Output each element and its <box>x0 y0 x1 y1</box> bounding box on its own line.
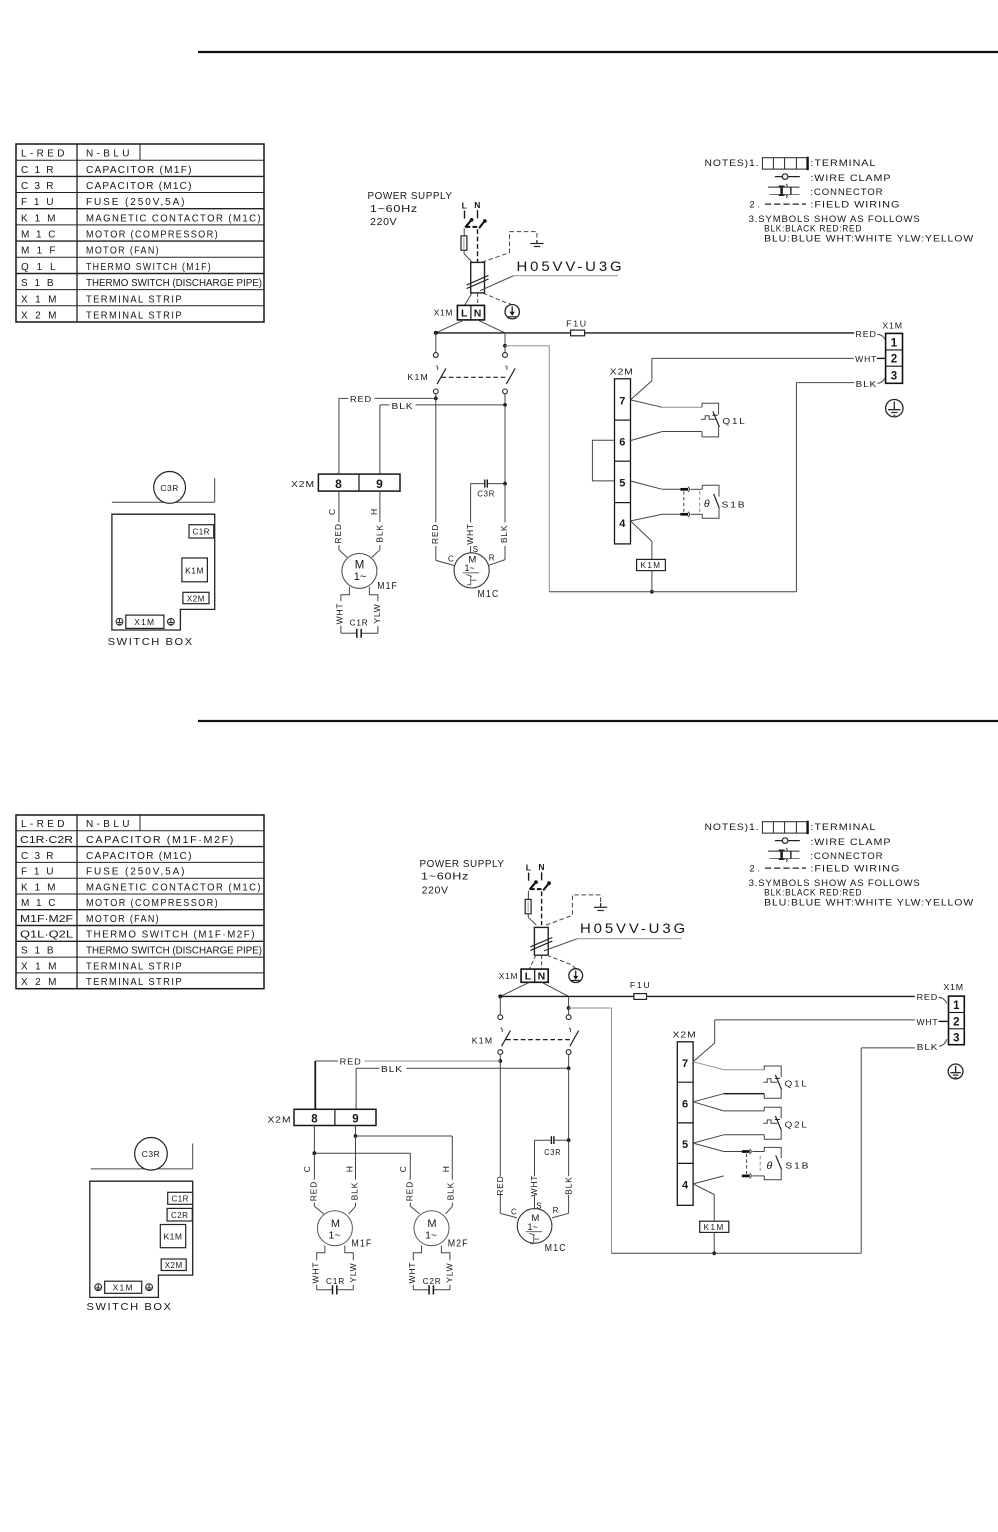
svg-text:8: 8 <box>311 1114 318 1126</box>
switch box outline <box>90 1181 193 1297</box>
svg-text:C3R: C3R <box>21 851 55 862</box>
motor M2F <box>414 1211 469 1250</box>
wire coil to rail <box>712 1232 716 1255</box>
svg-text:1~: 1~ <box>329 1230 341 1242</box>
svg-text:220V: 220V <box>370 216 397 228</box>
svg-text:N: N <box>474 200 480 210</box>
svg-text:BLU:BLUE WHT:WHITE YLW:YELLOW: BLU:BLUE WHT:WHITE YLW:YELLOW <box>764 233 974 243</box>
svg-text:K1M: K1M <box>21 882 57 893</box>
node BLK tap <box>567 1066 571 1070</box>
svg-text:BLK: BLK <box>381 1064 403 1074</box>
wire clamp symbol <box>775 838 800 844</box>
protective earth at X1M <box>886 400 903 417</box>
svg-text:RED: RED <box>495 1175 505 1195</box>
terminal symbol <box>762 821 807 834</box>
svg-text:7: 7 <box>619 396 625 408</box>
terminal X2M unit <box>161 1259 186 1271</box>
wire RED to X2M-8 <box>315 1057 500 1110</box>
wire clamp to L terminal <box>529 955 535 969</box>
svg-text:N-BLU: N-BLU <box>86 149 131 160</box>
svg-text:1~: 1~ <box>527 1222 537 1232</box>
svg-text:M1C: M1C <box>545 1243 567 1254</box>
svg-text:BLK: BLK <box>499 525 509 543</box>
ground lug left <box>116 618 123 625</box>
svg-text:FUSE (250V,5A): FUSE (250V,5A) <box>86 867 186 878</box>
power supply section (bottom) <box>420 858 689 997</box>
svg-text:L: L <box>462 200 467 210</box>
legend table (bottom) <box>16 815 264 989</box>
capacitor C1R unit <box>168 1192 193 1204</box>
svg-text:5: 5 <box>682 1139 688 1151</box>
terminal X2M unit <box>183 592 209 603</box>
svg-text:5: 5 <box>619 477 625 489</box>
capacitor C2R <box>423 1276 442 1295</box>
svg-text:6: 6 <box>619 436 625 448</box>
breaker link dashes <box>530 888 544 890</box>
wire BLK riser to X1M-3 <box>861 1048 915 1253</box>
svg-text:WHT: WHT <box>465 523 475 545</box>
svg-text:POWER SUPPLY: POWER SUPPLY <box>368 190 453 202</box>
svg-text:F1U: F1U <box>566 318 588 328</box>
capacitor C3R unit <box>154 472 186 504</box>
svg-text:2.: 2. <box>750 200 761 210</box>
connector on S1B bottom lead <box>680 512 702 517</box>
wire clamp symbol <box>775 174 800 180</box>
svg-text::FIELD WIRING: :FIELD WIRING <box>810 864 900 874</box>
svg-text::CONNECTOR: :CONNECTOR <box>810 851 883 861</box>
svg-text:POWER SUPPLY: POWER SUPPLY <box>420 858 505 870</box>
terminal strip X1M L N <box>457 305 484 320</box>
svg-text:Q1L: Q1L <box>21 262 57 273</box>
wire N field dash <box>541 872 543 880</box>
wire clamp to PE dashed <box>547 955 576 968</box>
wire BLK drop to M1C R <box>552 1068 570 1218</box>
svg-text:X2M: X2M <box>165 1261 183 1270</box>
svg-text:RED: RED <box>333 523 343 543</box>
svg-text:C2R: C2R <box>423 1276 442 1286</box>
wire N dashed to clamp <box>541 891 543 925</box>
wire L to fuse <box>463 228 465 236</box>
svg-text:N: N <box>474 308 482 320</box>
legend table (top) <box>16 144 264 322</box>
wire X2M-5 to S1B <box>693 1143 742 1151</box>
wire M1F to C1R left <box>317 1246 332 1290</box>
svg-text:C: C <box>398 1166 408 1172</box>
earth symbol <box>594 903 607 910</box>
terminal strip X2M 8 9 <box>291 474 400 491</box>
svg-text:2.: 2. <box>750 864 761 874</box>
terminal X1M unit <box>126 615 164 628</box>
fuse on L lead <box>525 899 531 913</box>
svg-text:X1M: X1M <box>21 961 58 972</box>
svg-text:F1U: F1U <box>21 197 55 208</box>
notes legend (bottom) <box>705 821 975 908</box>
node RED tap <box>434 397 438 401</box>
svg-text::TERMINAL: :TERMINAL <box>810 822 876 832</box>
svg-text:K1M: K1M <box>21 213 57 224</box>
svg-text:C3R: C3R <box>544 1148 561 1157</box>
contactor K1M unit <box>160 1225 185 1248</box>
wire H BLK to M1F <box>372 491 380 557</box>
svg-text:TERMINAL STRIP: TERMINAL STRIP <box>86 311 183 322</box>
hook RED to X1M-1 <box>939 997 947 1003</box>
svg-text:RED: RED <box>917 992 939 1002</box>
svg-text:R: R <box>553 1206 559 1215</box>
protective earth circle <box>505 305 519 319</box>
svg-text:9: 9 <box>376 477 383 491</box>
wire L terminal to bus <box>436 320 464 333</box>
power supply label <box>420 858 505 897</box>
svg-text:6: 6 <box>682 1098 688 1110</box>
svg-text:H: H <box>441 1166 451 1172</box>
wire WHT to X1M-2 <box>939 1020 949 1022</box>
wire BLK to X2M-9 <box>356 1064 568 1109</box>
terminal symbol <box>762 157 807 170</box>
thermo switch S1B <box>747 1147 811 1179</box>
svg-text:THERMO SWITCH (DISCHARGE PIPE): THERMO SWITCH (DISCHARGE PIPE) <box>86 278 262 289</box>
svg-text:YLW: YLW <box>445 1262 455 1282</box>
wire X2M-7 to Q1L <box>631 400 703 408</box>
svg-text:MOTOR (FAN): MOTOR (FAN) <box>86 914 160 925</box>
main L bus wire <box>498 994 915 998</box>
svg-text:MAGNETIC CONTACTOR (M1C): MAGNETIC CONTACTOR (M1C) <box>86 213 262 224</box>
svg-text:3.SYMBOLS SHOW AS FOLLOWS: 3.SYMBOLS SHOW AS FOLLOWS <box>749 214 921 224</box>
wire N dashed to clamp <box>477 229 479 262</box>
svg-text:7: 7 <box>682 1058 688 1070</box>
wire L field dash <box>528 873 530 881</box>
svg-text:X1M: X1M <box>434 308 454 318</box>
wire X2M-6 to Q1L <box>693 1094 764 1102</box>
wire clamp H05VV-U3G <box>530 927 552 955</box>
svg-text:CAPACITOR (M1F·M2F): CAPACITOR (M1F·M2F) <box>86 835 235 846</box>
connector symbol <box>768 848 800 862</box>
contactor K1M pole L <box>498 996 511 1061</box>
svg-text:2: 2 <box>891 354 897 366</box>
hook BLK to X1M-3 <box>939 1039 947 1046</box>
thermo switch Q1L <box>701 403 747 437</box>
wire M2F to C2R left <box>413 1246 428 1290</box>
capacitor C1R <box>350 618 369 638</box>
breaker switch L <box>530 880 538 889</box>
svg-text:M1C: M1C <box>478 589 500 600</box>
capacitor C3R <box>535 1136 569 1157</box>
terminal strip X1M L N <box>521 969 548 983</box>
svg-text:YLW: YLW <box>372 603 382 623</box>
svg-text:FUSE (250V,5A): FUSE (250V,5A) <box>86 197 186 208</box>
labels M2F column <box>398 1166 455 1201</box>
svg-text:1~: 1~ <box>425 1230 437 1242</box>
svg-text:SWITCH BOX: SWITCH BOX <box>108 636 194 648</box>
jumper bracket 6-5 <box>592 440 614 481</box>
svg-text:THERMO SWITCH (M1F·M2F): THERMO SWITCH (M1F·M2F) <box>86 930 256 941</box>
svg-text:1~: 1~ <box>354 571 367 583</box>
breaker link dashes <box>466 226 480 228</box>
svg-text:C3R: C3R <box>21 181 55 192</box>
ground lug right <box>168 618 175 625</box>
wire L field dash <box>464 211 466 219</box>
coil K1M <box>700 1221 729 1232</box>
wire M1F to C1R right <box>362 587 378 633</box>
svg-text:BLU:BLUE WHT:WHITE YLW:YELLOW: BLU:BLUE WHT:WHITE YLW:YELLOW <box>764 897 974 907</box>
svg-text:H05VV-U3G: H05VV-U3G <box>517 259 625 274</box>
capacitor C3R <box>471 480 505 499</box>
wire clamp to PE dashed <box>483 293 511 304</box>
svg-text:X1M: X1M <box>943 982 964 992</box>
terminal X1M unit <box>105 1281 142 1293</box>
wire coil to rail <box>650 571 654 594</box>
svg-text:L: L <box>461 308 468 320</box>
svg-text:WHT: WHT <box>310 1262 320 1284</box>
svg-text:1: 1 <box>891 337 898 349</box>
terminal strip X1M 123 <box>943 982 964 1045</box>
svg-text::WIRE CLAMP: :WIRE CLAMP <box>810 173 891 183</box>
separator rule top <box>198 51 998 53</box>
wire WHT riser from X2M-7 <box>693 1020 915 1062</box>
svg-text:X2M: X2M <box>268 1115 292 1125</box>
svg-text:C2R: C2R <box>171 1211 189 1220</box>
svg-text:M2F: M2F <box>448 1239 469 1250</box>
node BLK tap <box>503 403 507 407</box>
svg-text:C1R: C1R <box>171 1194 189 1203</box>
svg-text:X1M: X1M <box>882 320 903 330</box>
svg-text:H: H <box>345 1166 355 1172</box>
svg-text::WIRE CLAMP: :WIRE CLAMP <box>810 837 891 847</box>
svg-text:BLK: BLK <box>917 1042 939 1052</box>
svg-text:C: C <box>448 555 454 564</box>
svg-text:THERMO SWITCH (M1F): THERMO SWITCH (M1F) <box>86 262 212 273</box>
svg-text:F1U: F1U <box>630 980 652 990</box>
svg-text:TERMINAL STRIP: TERMINAL STRIP <box>86 961 183 972</box>
svg-text:X1M: X1M <box>21 294 58 305</box>
svg-text:MOTOR (COMPRESSOR): MOTOR (COMPRESSOR) <box>86 898 219 909</box>
svg-text:Q1L·Q2L: Q1L·Q2L <box>20 930 74 941</box>
protective earth circle <box>569 969 583 983</box>
contactor K1M link dashed <box>506 1039 570 1041</box>
wire M2F to C2R right <box>434 1246 450 1290</box>
svg-text:S1B: S1B <box>785 1161 810 1171</box>
hook BLK to X1M-3 <box>878 376 886 383</box>
svg-text:CAPACITOR (M1F): CAPACITOR (M1F) <box>86 165 193 176</box>
svg-text:M: M <box>331 1218 340 1230</box>
svg-text:TERMINAL STRIP: TERMINAL STRIP <box>86 294 183 305</box>
wire X2M-6 to Q1L <box>631 432 703 441</box>
ground lug right <box>146 1284 153 1291</box>
svg-text:BLK: BLK <box>350 1182 360 1200</box>
svg-text:BLK: BLK <box>374 524 384 542</box>
field wiring symbol <box>765 203 806 205</box>
svg-text:TERMINAL STRIP: TERMINAL STRIP <box>86 977 183 988</box>
svg-text:C1R·C2R: C1R·C2R <box>20 835 73 846</box>
svg-text:M: M <box>427 1218 436 1230</box>
wire N field dash <box>477 210 479 218</box>
svg-text:K1M: K1M <box>704 1223 725 1232</box>
svg-text:L: L <box>526 862 531 872</box>
wire L terminal to bus <box>500 982 529 996</box>
svg-text:S1B: S1B <box>21 946 55 957</box>
thermo switch S1B <box>684 485 747 518</box>
svg-text:SWITCH BOX: SWITCH BOX <box>87 1301 173 1313</box>
svg-text:L-RED: L-RED <box>21 149 66 160</box>
coil K1M <box>637 559 666 570</box>
thermo switch Q1L <box>763 1066 808 1098</box>
svg-text:8: 8 <box>335 477 342 491</box>
motor M1C <box>511 1201 567 1254</box>
wire X2M-4 to S1B <box>631 514 681 521</box>
svg-text:M: M <box>355 559 365 571</box>
svg-text:3.SYMBOLS SHOW AS FOLLOWS: 3.SYMBOLS SHOW AS FOLLOWS <box>749 878 921 888</box>
field wiring symbol <box>765 867 806 869</box>
fuse F1U <box>630 980 652 999</box>
svg-text:RED: RED <box>340 1057 362 1067</box>
wire clamp to N terminal dashed <box>477 293 479 305</box>
svg-text:K1M: K1M <box>472 1036 494 1046</box>
breaker switch N <box>543 881 551 890</box>
connector on S1B bottom lead <box>742 1173 765 1178</box>
svg-text:θ: θ <box>767 1160 773 1172</box>
svg-text:WHT: WHT <box>407 1262 417 1284</box>
svg-text:RED: RED <box>404 1181 414 1201</box>
wire WHT drop to M1C S <box>470 484 472 553</box>
svg-text:K1M: K1M <box>641 561 662 570</box>
wire C RED to M1F <box>339 491 347 557</box>
branch wire to M2F C <box>314 1153 419 1214</box>
breaker switch L <box>465 218 473 227</box>
wire fuse to clamp <box>528 914 536 925</box>
capacitor C1R <box>326 1276 345 1295</box>
earth symbol <box>530 240 543 247</box>
wire M1F to C1R left <box>341 587 356 633</box>
wire X2M-5 to Q2L <box>693 1135 764 1143</box>
svg-text:C: C <box>302 1166 312 1172</box>
terminal strip X2M 8 9 <box>268 1109 377 1125</box>
svg-text:K1M: K1M <box>164 1231 183 1241</box>
breaker switch N <box>479 219 487 228</box>
capacitor C3R unit <box>135 1138 168 1171</box>
motor M1F <box>342 553 398 592</box>
svg-text:M1F: M1F <box>21 246 57 257</box>
wire clamp to N terminal dashed <box>541 955 543 969</box>
motor M1C <box>448 545 500 600</box>
contactor K1M link dashed <box>442 376 507 378</box>
svg-text:MOTOR (COMPRESSOR): MOTOR (COMPRESSOR) <box>86 230 219 241</box>
wire X2M-4 to S1B <box>693 1176 724 1184</box>
svg-text:BLK: BLK <box>563 1176 573 1194</box>
svg-text:Q2L: Q2L <box>785 1119 809 1129</box>
wire RED to X2M-8 <box>339 394 436 474</box>
wire fuse to clamp <box>464 250 472 262</box>
hook RED to X1M-1 <box>877 334 885 340</box>
wire X2M-4 to K1M coil <box>631 521 652 560</box>
protective earth at X1M <box>948 1064 963 1079</box>
notes legend (top) <box>705 157 975 244</box>
wire clamp to L terminal <box>465 293 472 305</box>
svg-text:NOTES)1.: NOTES)1. <box>705 158 760 168</box>
svg-text:YLW: YLW <box>348 1262 358 1282</box>
svg-text:K1M: K1M <box>185 565 204 575</box>
svg-text:2: 2 <box>953 1016 959 1028</box>
svg-text:Q1L: Q1L <box>785 1078 809 1088</box>
svg-text:C3R: C3R <box>160 483 179 493</box>
svg-text:MAGNETIC CONTACTOR (M1C): MAGNETIC CONTACTOR (M1C) <box>86 882 262 893</box>
svg-text:X2M: X2M <box>673 1030 697 1040</box>
field wiring dashed to earth <box>546 895 601 925</box>
cable label H05VV-U3G <box>544 921 688 951</box>
svg-text:1~60Hz: 1~60Hz <box>421 871 469 883</box>
field wiring dashed to earth <box>482 232 537 263</box>
svg-text::FIELD WIRING: :FIELD WIRING <box>810 200 900 210</box>
svg-text:X1M: X1M <box>113 1282 134 1292</box>
wire BLK riser to X1M-3 <box>796 383 854 592</box>
svg-text:X2M: X2M <box>187 594 205 603</box>
wire BLK to X2M-9 <box>380 401 505 474</box>
wire X2M-5 to S1B <box>631 481 681 489</box>
wire N branch to right rail <box>569 1008 612 1253</box>
svg-text:N: N <box>538 971 546 983</box>
wire WHT to X1M-2 <box>877 357 886 359</box>
power supply label <box>368 190 453 228</box>
svg-text:X2M: X2M <box>21 311 58 322</box>
svg-text:K1M: K1M <box>408 372 430 382</box>
contactor K1M unit <box>182 558 208 582</box>
connector on S1B top lead <box>680 487 702 492</box>
svg-text:9: 9 <box>352 1114 358 1126</box>
thermo switch Q2L <box>763 1107 808 1139</box>
bottom rail wire <box>612 1252 862 1254</box>
ground lug left <box>95 1284 102 1291</box>
svg-text:M1C: M1C <box>21 898 57 909</box>
terminal strip X1M 123 <box>882 320 903 383</box>
svg-text:BLK: BLK <box>856 379 878 389</box>
bottom rail wire <box>549 591 796 593</box>
svg-text:C3R: C3R <box>477 490 495 499</box>
svg-text:RED: RED <box>430 524 440 544</box>
svg-text:CAPACITOR (M1C): CAPACITOR (M1C) <box>86 181 193 192</box>
svg-text:1~60Hz: 1~60Hz <box>370 203 418 215</box>
terminal strip X2M 7654 <box>610 367 634 544</box>
svg-text:F1U: F1U <box>21 867 55 878</box>
svg-text:RED: RED <box>350 394 372 404</box>
svg-text:3: 3 <box>953 1033 959 1045</box>
wire RED drop to M1C C <box>500 1061 517 1218</box>
svg-text:M1F·M2F: M1F·M2F <box>20 914 73 925</box>
svg-text:WHT: WHT <box>917 1017 939 1027</box>
svg-text:220V: 220V <box>422 885 449 897</box>
connector symbol <box>768 184 800 198</box>
fuse on L lead <box>461 236 467 250</box>
svg-text:C1R: C1R <box>350 618 369 628</box>
svg-text:X1M: X1M <box>499 971 519 981</box>
terminal strip X2M 7654 <box>673 1030 697 1206</box>
svg-text:WHT: WHT <box>855 354 877 364</box>
wire N branch to right rail <box>505 346 549 592</box>
capacitor C2R unit <box>167 1208 192 1221</box>
wire clamp H05VV-U3G <box>467 262 489 293</box>
svg-text:S1B: S1B <box>21 278 55 289</box>
svg-text:M1F: M1F <box>377 581 398 592</box>
svg-text:C: C <box>327 509 337 515</box>
capacitor mount shelf <box>91 1144 193 1169</box>
svg-text:M1F: M1F <box>351 1239 372 1250</box>
wire WHT drop to M1C S <box>534 1140 536 1209</box>
svg-text:3: 3 <box>891 370 897 382</box>
contactor K1M pole N <box>503 333 515 405</box>
wire N terminal to bus <box>542 982 569 996</box>
wire BLK drop to M1C R <box>489 405 507 565</box>
svg-text:1~: 1~ <box>464 563 474 573</box>
branch wire to M2F H <box>356 1136 453 1214</box>
svg-text::TERMINAL: :TERMINAL <box>810 158 876 168</box>
separator rule bottom <box>198 720 998 722</box>
